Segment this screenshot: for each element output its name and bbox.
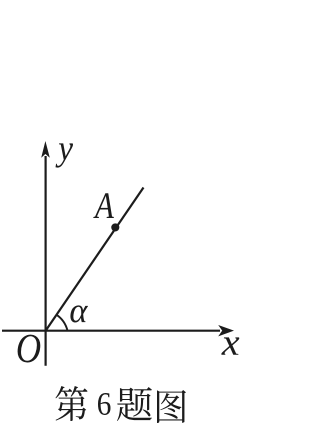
angle arc alpha (56, 315, 67, 331)
label O (18, 335, 41, 363)
label x (221, 337, 239, 354)
ray OA (46, 188, 144, 331)
label alpha (70, 305, 88, 322)
y-axis (44, 156, 46, 366)
x-axis (2, 330, 220, 332)
caption: 题 (117, 387, 152, 421)
x-axis arrowhead (218, 325, 234, 336)
caption: 第 (55, 386, 87, 421)
caption: 图 (157, 390, 186, 423)
point A dot (111, 223, 119, 231)
caption: 6 (98, 393, 111, 415)
label y (56, 143, 74, 167)
coordinate-plane figure (0, 0, 242, 425)
y-axis arrowhead (41, 141, 50, 158)
label A (93, 193, 114, 218)
